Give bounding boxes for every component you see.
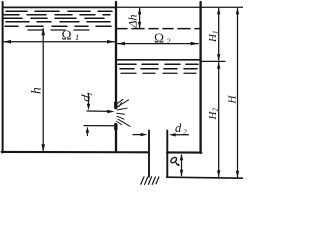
h top arrowhead [41, 28, 45, 35]
ell dimension arrow [181, 155, 183, 176]
left tank water dash row 5 [5, 25, 111, 27]
d1 upper extension line with flow arrowhead [87, 110, 111, 112]
orifice jet spray stroke 3 [119, 103, 122, 107]
ell top arrowhead [180, 154, 183, 160]
left tank left wall [2, 2, 4, 153]
outlet pipe right wall [166, 130, 168, 177]
H2 bottom arrowhead [217, 170, 220, 177]
d2 right arrow [174, 134, 189, 136]
d2 left arrow [133, 134, 143, 136]
right tank right wall [199, 2, 201, 153]
left tank water surface [3, 6, 116, 8]
H2 top arrowhead [217, 62, 220, 69]
left tank water dash row 3 [3, 17, 112, 19]
right tank water surface [117, 59, 200, 61]
middle wall upper segment [115, 2, 117, 104]
svg-text:1: 1 [75, 32, 79, 42]
svg-text:d: d [175, 121, 182, 135]
omega1 right arrowhead [107, 40, 115, 44]
top extension line to H dimension [116, 6, 243, 8]
h bottom arrowhead [41, 144, 45, 151]
orifice jet spray stroke 6 [117, 113, 125, 114]
svg-text:Ω: Ω [62, 28, 72, 43]
H bottom arrowhead [236, 171, 239, 178]
orifice jet spray stroke 2 [117, 100, 129, 107]
d1 down arrow [88, 94, 90, 105]
ground outlet line [167, 177, 243, 178]
right tank bottom [167, 151, 201, 153]
middle wall lower segment [115, 129, 117, 153]
omega1 dimension line [3, 41, 114, 43]
svg-text:Δh: Δh [126, 14, 140, 28]
right tank dashed initial level [117, 28, 200, 30]
delta-h top arrowhead [138, 8, 141, 15]
H dimension line [237, 8, 239, 177]
svg-text:h: h [29, 87, 44, 94]
orifice jet spray stroke 8 [118, 119, 130, 126]
middle wall orifice upper flared tip [114, 103, 117, 108]
left tank water dash row 1 [6, 10, 112, 12]
svg-text:2: 2 [183, 128, 187, 137]
middle wall orifice lower flared tip [114, 125, 117, 129]
label ell (drawn loop) [170, 156, 179, 165]
H1 dimension line [218, 8, 220, 60]
H1 bottom arrowhead [217, 54, 220, 61]
right surface extension line [202, 60, 225, 62]
svg-text:2: 2 [167, 37, 171, 46]
orifice jet spray stroke 9 [117, 121, 122, 125]
orifice jet spray stroke 4 [117, 109, 124, 110]
orifice jet spray stroke 1 [117, 99, 124, 104]
outlet pipe left wall [148, 130, 150, 176]
d1 lower extension line [84, 125, 114, 127]
ell bottom arrowhead [180, 170, 183, 176]
ground hatch stroke 1 [141, 177, 144, 184]
right tank water dash row 2 [120, 68, 197, 70]
h dimension line [42, 29, 44, 152]
omega1 left arrowhead [3, 40, 11, 44]
orifice jet spray stroke 7 [117, 116, 124, 119]
H top arrowhead [236, 8, 239, 15]
delta-h dimension arrow [139, 8, 141, 28]
svg-text:Ω: Ω [154, 31, 164, 46]
ground hatch stroke 5 [156, 177, 159, 184]
ground hatch stroke 2 [145, 177, 148, 184]
H1 top arrowhead [217, 8, 220, 15]
delta-h bottom arrowhead [138, 22, 141, 29]
left tank water dash row 6 [28, 29, 92, 31]
left tank water dash row 4 [6, 21, 110, 23]
right tank water dash row 1 [118, 63, 198, 65]
left tank bottom [2, 151, 149, 154]
svg-text:H: H [227, 95, 239, 105]
omega2 dimension line [117, 43, 198, 45]
ground hatch stroke 3 [148, 177, 151, 184]
omega2 right arrowhead [191, 42, 199, 46]
omega2 left arrowhead [117, 42, 125, 46]
d1 up arrow [86, 131, 88, 136]
right tank water dash row 3 [121, 72, 196, 74]
ground hatch stroke 4 [152, 177, 155, 184]
orifice jet spray stroke 5 [125, 107, 128, 110]
left tank water dash row 2 [4, 14, 110, 16]
H2 dimension line [218, 63, 220, 177]
